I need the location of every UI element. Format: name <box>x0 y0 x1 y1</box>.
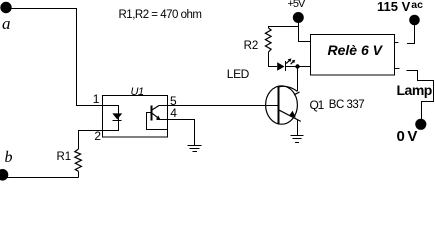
Q1 collector curve <box>279 86 298 91</box>
U1 phototransistor emitter diagonal <box>152 113 160 119</box>
resistor R1 zigzag <box>75 149 82 171</box>
Q1 collector inner diagonal <box>294 92 300 95</box>
pin number 1 <box>93 93 100 105</box>
label LED <box>227 68 249 80</box>
ground under Q1 <box>290 135 303 137</box>
U1 internal LED cathode bar <box>113 120 122 122</box>
wire +5V down and to relay <box>299 22 311 42</box>
LED cathode bar <box>285 61 287 71</box>
wire a to U1 pin1 <box>11 9 103 106</box>
U1 base lead loop <box>147 113 168 130</box>
terminal 115Vac <box>409 15 420 26</box>
U1 internal LED diode <box>112 113 122 119</box>
wire U1 pin4 to ground <box>156 120 194 146</box>
wire relay contact to Lamp to 0V <box>407 71 434 119</box>
Q1 emitter wire to ground <box>297 120 299 136</box>
U1 phototransistor collector diagonal <box>152 106 160 111</box>
terminal +5V <box>293 12 304 23</box>
LED light arrow 1 <box>286 60 290 64</box>
label BC 337 <box>329 100 364 112</box>
resistor R2 zigzag <box>265 28 271 52</box>
label R1,R2 = 470 ohm <box>119 10 202 22</box>
Q1 base bar <box>277 86 279 124</box>
label R2 <box>244 41 259 53</box>
LED light arrow 2 <box>291 61 294 64</box>
Q1 emitter diagonal <box>279 110 301 122</box>
terminal b <box>0 169 8 181</box>
relay pin stub top-right <box>395 42 399 44</box>
wire LED to relay <box>286 66 311 68</box>
label a <box>2 15 11 32</box>
wire R2 to LED anode <box>269 52 278 67</box>
label U1 <box>131 87 144 98</box>
pin number 4 <box>170 107 177 119</box>
relay pin stub bottom-right <box>395 68 400 70</box>
label 115 Vac <box>377 0 423 13</box>
label 0 V <box>397 129 417 144</box>
transistor Q1 circle <box>266 86 298 124</box>
terminal 0V <box>415 119 426 130</box>
label Q1 BC 337 <box>310 99 324 111</box>
ground under pin4 <box>188 145 202 147</box>
wire 115Vac to relay contact <box>407 25 415 44</box>
label Lamp <box>397 83 432 97</box>
Q1 collector vertical wire <box>297 67 299 92</box>
optocoupler U1 box <box>103 96 168 138</box>
U1 internal LED wires <box>103 106 119 131</box>
junction node collector/LED/relay <box>295 64 299 68</box>
Q1 emitter arrowhead <box>289 111 296 118</box>
wire U1 pin5 to Q1 base <box>159 105 278 107</box>
label R1 <box>57 152 72 164</box>
pin number 2 <box>94 130 101 142</box>
wire b to R1 <box>7 177 79 179</box>
label Rele 6 V <box>328 43 382 57</box>
pin number 5 <box>170 95 177 107</box>
U1 phototransistor base bar <box>151 106 153 121</box>
LED diode D1 triangle <box>277 62 284 70</box>
terminal a <box>0 2 11 13</box>
resistor R1 bottom lead <box>78 171 80 177</box>
label b <box>5 150 13 166</box>
label +5V <box>288 0 305 10</box>
U1 emitter arrowhead <box>156 116 160 120</box>
wire R1 top to U1 pin2 <box>79 131 103 150</box>
relay box <box>311 35 395 76</box>
wire +5V branch to R2 <box>269 27 299 29</box>
